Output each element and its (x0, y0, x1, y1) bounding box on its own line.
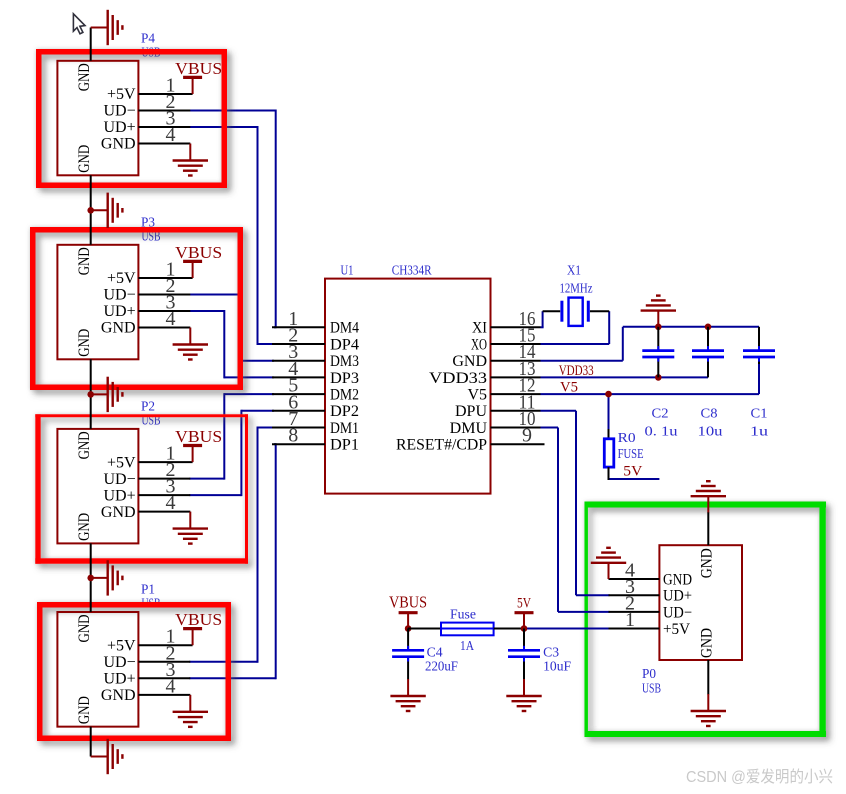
svg-text:R0: R0 (618, 431, 636, 446)
U1 pin 9 RESET#/CDP (396, 425, 545, 454)
svg-text:DM1: DM1 (330, 420, 359, 437)
C1 reference label (751, 406, 768, 421)
svg-text:4: 4 (166, 675, 176, 697)
P2 USB label (142, 413, 161, 428)
svg-text:UD−: UD− (103, 287, 135, 304)
wire net P2 UD- to U1 DM2 (189, 393, 274, 480)
C3 value label 10uF (543, 659, 571, 674)
wire net U1 XI to X1 blue segment (542, 311, 544, 327)
P2 VBUS label (175, 427, 222, 446)
svg-text:9: 9 (522, 425, 532, 447)
U1 pin 3 DM3 (272, 341, 359, 370)
svg-text:GND: GND (101, 504, 136, 521)
wire net U1 XO to X1 blue segment (541, 311, 610, 344)
svg-text:DP4: DP4 (330, 336, 359, 353)
U1 pin 8 DP1 (272, 425, 359, 454)
P1 pin 3 UD+ (103, 659, 190, 688)
P1 VBUS power symbol (183, 629, 202, 646)
P0 pin 4 GND (609, 560, 693, 589)
watermark CSDN (686, 768, 833, 786)
svg-text:C3: C3 (543, 645, 559, 660)
P4 VBUS label (175, 59, 222, 78)
chassis ground between P4 and P3 (91, 193, 123, 228)
P2 pin 2 UD- (103, 459, 190, 488)
wire V5 down to R0 (608, 394, 610, 430)
U1 pin 15 XO (471, 325, 541, 354)
svg-text:1u: 1u (750, 424, 768, 439)
svg-text:DPU: DPU (455, 403, 487, 420)
C2 reference label (652, 406, 669, 421)
U1 pin 6 DP2 (272, 391, 359, 420)
P3 pin 3 UD+ (103, 292, 190, 321)
P0 top shield GND wire (707, 512, 709, 545)
U1 pin 2 DP4 (272, 325, 359, 354)
wire GND chain P2-P1 (90, 543, 92, 612)
svg-text:DP3: DP3 (330, 370, 359, 387)
fuse F1 1A (441, 623, 494, 636)
P2 pin 1 +5V (107, 443, 193, 472)
junction dot rail C8 (705, 324, 712, 331)
C8 value label 10u (698, 424, 723, 439)
capacitor C3 (523, 629, 525, 680)
wire net U1 DMU to P0 UD- (535, 428, 610, 612)
svg-text:GND: GND (76, 431, 93, 459)
svg-text:DM2: DM2 (330, 387, 359, 404)
P4 reference label (141, 31, 155, 46)
net label 5V bottom (517, 596, 531, 612)
P2 pin 4 GND (101, 492, 190, 521)
capacitor C4 (407, 629, 409, 680)
wire net U1 VDD33 (541, 376, 709, 378)
C4 value label 220uF (425, 659, 458, 674)
P1 pin 4 GND (101, 675, 190, 704)
junction dot GND chain 1 (87, 207, 94, 214)
svg-text:GND: GND (76, 696, 93, 724)
svg-text:GND: GND (101, 136, 136, 153)
wire net P1 UD+ to U1 DP1 (189, 443, 275, 679)
wire net P3 UD+ to U1 DP3 (189, 310, 274, 378)
wire GND chain top segment (90, 28, 92, 61)
X1 value label 12MHz (560, 281, 593, 296)
P2 GND vertical text top (76, 431, 93, 459)
svg-text:GND: GND (76, 247, 93, 275)
P2 reference label (141, 399, 155, 414)
svg-text:+5V: +5V (107, 454, 136, 471)
P4 GND vertical text top (76, 63, 93, 91)
wire GND chain bottom segment (90, 727, 92, 757)
svg-text:GND: GND (101, 320, 136, 337)
wire net P1 UD- to U1 DM1 (189, 427, 274, 663)
junction dot rail C2 (655, 324, 662, 331)
junction dot V5 at R0 (605, 391, 612, 398)
svg-text:4: 4 (166, 308, 176, 330)
P3 VBUS power symbol (183, 261, 202, 278)
P0 USB label (642, 682, 661, 697)
connector P4 body (57, 61, 138, 176)
svg-text:+5V: +5V (663, 621, 690, 638)
wire GND chain P3-P2 (90, 359, 92, 429)
chassis ground between P2 and P1 (91, 560, 123, 595)
svg-text:DM4: DM4 (330, 320, 359, 337)
wire R0 to 5V net stub (609, 478, 660, 480)
P4 VBUS power symbol (183, 77, 202, 94)
wire GND chain P4-P3 (90, 175, 92, 245)
svg-text:GND: GND (452, 353, 487, 370)
C3 reference label (543, 645, 559, 660)
P3 VBUS label (175, 243, 222, 262)
svg-text:GND: GND (76, 513, 93, 541)
svg-text:C1: C1 (751, 406, 768, 421)
svg-text:4: 4 (166, 124, 176, 146)
svg-text:XO: XO (471, 336, 487, 353)
svg-text:C8: C8 (701, 406, 718, 421)
P3 ground symbol (173, 328, 208, 360)
P4 pin 4 GND (101, 124, 190, 153)
P3 reference label (141, 215, 155, 230)
svg-text:GND: GND (76, 615, 93, 643)
svg-text:GND: GND (698, 628, 715, 658)
U1 pin 14 GND (452, 341, 540, 370)
P3 pin 4 GND (101, 308, 190, 337)
wire VBUS to fuse (408, 628, 441, 630)
Fuse value label 1A (460, 639, 475, 654)
capacitor C1 (758, 327, 760, 364)
svg-text:VDD33: VDD33 (429, 370, 487, 387)
svg-text:GND: GND (76, 329, 93, 357)
svg-text:1A: 1A (460, 639, 475, 654)
wire net U1 GND to capacitor rail (541, 327, 623, 361)
net label VBUS bottom (389, 593, 427, 612)
svg-text:UD+: UD+ (103, 119, 135, 136)
net label VDD33 (559, 363, 594, 379)
wire net P3 UD- to U1 DM3 (189, 294, 274, 362)
chassis ground between P3 and P2 (91, 377, 123, 412)
wire net U1 V5 (541, 363, 760, 394)
C2 value label 0.1u (645, 424, 678, 439)
P3 pin 2 UD- (103, 275, 190, 304)
P0 GND vertical text top (698, 548, 715, 578)
connector P3 body (57, 245, 138, 359)
wire 5V node to P0 +5V (524, 628, 610, 630)
U1 value label CH334R (392, 264, 433, 279)
ground symbol below P0 (691, 694, 726, 726)
P0 GND vertical text bottom (698, 628, 715, 658)
junction dot GND chain 2 (87, 391, 94, 398)
svg-text:XI: XI (472, 320, 487, 337)
U1 pin 5 DM2 (272, 375, 359, 404)
P4 USB label (142, 45, 161, 60)
crystal X1 (562, 298, 588, 326)
U1 pin 12 V5 (467, 375, 540, 404)
svg-text:UD+: UD+ (103, 303, 135, 320)
highlight box around P1 (40, 605, 229, 739)
U1 reference label (341, 264, 354, 279)
svg-text:X1: X1 (567, 263, 581, 278)
wire R0 top stub (608, 429, 610, 439)
svg-text:DMU: DMU (450, 420, 488, 437)
U1 pin 16 XI (472, 308, 541, 337)
mouse cursor (73, 14, 85, 34)
connector P0 body (659, 545, 742, 660)
ground symbol at P0 pin 4 (591, 548, 626, 579)
Fuse reference label (450, 608, 476, 623)
svg-text:+5V: +5V (107, 270, 136, 287)
svg-text:5V: 5V (517, 596, 531, 612)
P4 pin 3 UD+ (103, 108, 190, 137)
junction dot VBUS (405, 625, 412, 632)
power symbol 5V (515, 613, 534, 629)
resistor R0 (604, 439, 614, 467)
wire net P4 UD+ to U1 DP4 (189, 126, 274, 345)
wire fuse to 5V node (494, 628, 524, 630)
P2 GND vertical text bottom (76, 513, 93, 541)
svg-text:GND: GND (698, 548, 715, 578)
power symbol VBUS (399, 613, 418, 629)
svg-text:P2: P2 (141, 399, 155, 414)
ground symbol above capacitor rail (641, 296, 676, 327)
svg-text:DP1: DP1 (330, 437, 359, 454)
C8 reference label (701, 406, 718, 421)
wire U1 XO stub to X1 (590, 310, 609, 312)
junction dot 5V (521, 625, 528, 632)
ground symbol C3 (506, 679, 541, 711)
U1 pin 7 DM1 (272, 408, 359, 437)
P1 GND vertical text bottom (76, 696, 93, 724)
X1 reference label (567, 263, 581, 278)
U1 pin 4 DP3 (272, 358, 359, 387)
svg-text:DP2: DP2 (330, 403, 359, 420)
svg-text:VDD33: VDD33 (559, 363, 594, 379)
wire GND rail over capacitors (623, 326, 759, 328)
svg-text:P0: P0 (642, 667, 656, 682)
P0 pin 2 UD- (609, 592, 693, 621)
svg-text:220uF: 220uF (425, 659, 458, 674)
ground symbol above P0 (691, 481, 726, 512)
svg-text:+5V: +5V (107, 637, 136, 654)
P3 USB label (142, 229, 161, 244)
svg-text:UD−: UD− (103, 471, 135, 488)
P1 VBUS label (175, 610, 222, 629)
svg-text:1: 1 (625, 609, 635, 631)
svg-text:UD−: UD− (663, 604, 692, 621)
C4 reference label (427, 645, 443, 660)
svg-text:C4: C4 (427, 645, 443, 660)
svg-text:VBUS: VBUS (175, 427, 222, 446)
svg-text:DM3: DM3 (330, 353, 359, 370)
P0 reference label (642, 667, 656, 682)
P2 VBUS power symbol (183, 446, 202, 463)
svg-text:UD−: UD− (103, 103, 135, 120)
net label V5 (560, 379, 578, 395)
P4 GND vertical text bottom (76, 145, 93, 173)
P1 ground symbol (173, 695, 208, 727)
C1 value label 1u (750, 424, 768, 439)
svg-text:GND: GND (76, 145, 93, 173)
svg-text:P4: P4 (141, 31, 155, 46)
highlight box around P0 (585, 502, 827, 738)
svg-text:10uF: 10uF (543, 659, 571, 674)
svg-text:VBUS: VBUS (389, 593, 427, 612)
U1 pin 1 DM4 (272, 308, 359, 337)
svg-text:U1: U1 (341, 264, 354, 279)
wire net P4 UD- to U1 DM4 (189, 110, 275, 329)
svg-text:GND: GND (663, 571, 692, 588)
svg-text:P1: P1 (141, 583, 155, 598)
wire U1 XI stub to X1 (541, 311, 561, 327)
P4 ground symbol (173, 144, 208, 176)
U1 pin 11 DPU (455, 391, 541, 420)
P3 pin 1 +5V (107, 259, 193, 288)
P1 pin 2 UD- (103, 642, 190, 671)
P3 GND vertical text bottom (76, 329, 93, 357)
U1 pin 13 VDD33 (429, 358, 541, 387)
net label 5V at R0 (623, 463, 642, 479)
junction dot GND chain 3 (87, 575, 94, 582)
svg-text:GND: GND (76, 63, 93, 91)
svg-text:UD+: UD+ (103, 671, 135, 688)
highlight box around P3 (33, 230, 241, 388)
P0 pin 3 UD+ (609, 576, 693, 605)
op-amp U1 body CH334R hub IC (325, 279, 491, 494)
P4 pin 2 UD- (103, 91, 190, 120)
R0 value label FUSE (618, 447, 644, 462)
P0 bottom shield GND wire (707, 660, 709, 695)
P1 USB label (142, 597, 161, 612)
P1 reference label (141, 583, 155, 598)
P2 ground symbol (173, 512, 208, 544)
svg-text:FUSE: FUSE (618, 447, 644, 462)
svg-text:C2: C2 (652, 406, 669, 421)
wire net U1 DPU to P0 UD+ (541, 411, 610, 596)
svg-text:+5V: +5V (107, 86, 136, 103)
svg-text:RESET#/CDP: RESET#/CDP (396, 437, 487, 454)
svg-text:UD+: UD+ (103, 487, 135, 504)
svg-text:GND: GND (101, 687, 136, 704)
P0 pin 1 +5V (609, 609, 691, 638)
capacitor C8 (707, 327, 709, 378)
P2 pin 3 UD+ (103, 476, 190, 505)
junction dot VDD33 at C2 (655, 374, 662, 381)
svg-text:CH334R: CH334R (392, 264, 433, 279)
svg-text:5V: 5V (623, 463, 642, 479)
P4 pin 1 +5V (107, 75, 193, 104)
P1 GND vertical text top (76, 615, 93, 643)
chassis ground top (91, 10, 123, 45)
connector P2 body (57, 429, 138, 544)
R0 reference label (618, 431, 636, 446)
U1 pin 10 DMU (450, 408, 541, 437)
highlight box around P2 (35, 414, 248, 564)
svg-text:CSDN @爱发明的小兴: CSDN @爱发明的小兴 (686, 768, 833, 786)
svg-text:VBUS: VBUS (175, 610, 222, 629)
connector P1 body (57, 612, 138, 727)
svg-text:4: 4 (166, 492, 176, 514)
wire R0 bottom stub (608, 467, 610, 480)
svg-text:VBUS: VBUS (175, 59, 222, 78)
svg-text:V5: V5 (467, 387, 487, 404)
P3 GND vertical text top (76, 247, 93, 275)
chassis ground bottom (91, 739, 123, 774)
svg-text:UD−: UD− (103, 654, 135, 671)
highlight box around P4 (39, 52, 225, 186)
svg-text:8: 8 (288, 425, 298, 447)
svg-text:0. 1u: 0. 1u (645, 424, 678, 439)
svg-text:USB: USB (642, 682, 661, 697)
svg-text:Fuse: Fuse (450, 608, 476, 623)
svg-text:UD+: UD+ (663, 588, 692, 605)
svg-text:V5: V5 (560, 379, 578, 395)
wire net P2 UD+ to U1 DP2 (189, 410, 274, 496)
svg-text:12MHz: 12MHz (560, 281, 593, 296)
capacitor C2 (657, 327, 659, 378)
ground symbol C4 (390, 679, 425, 711)
P1 pin 1 +5V (107, 626, 193, 655)
svg-text:VBUS: VBUS (175, 243, 222, 262)
svg-text:10u: 10u (698, 424, 723, 439)
